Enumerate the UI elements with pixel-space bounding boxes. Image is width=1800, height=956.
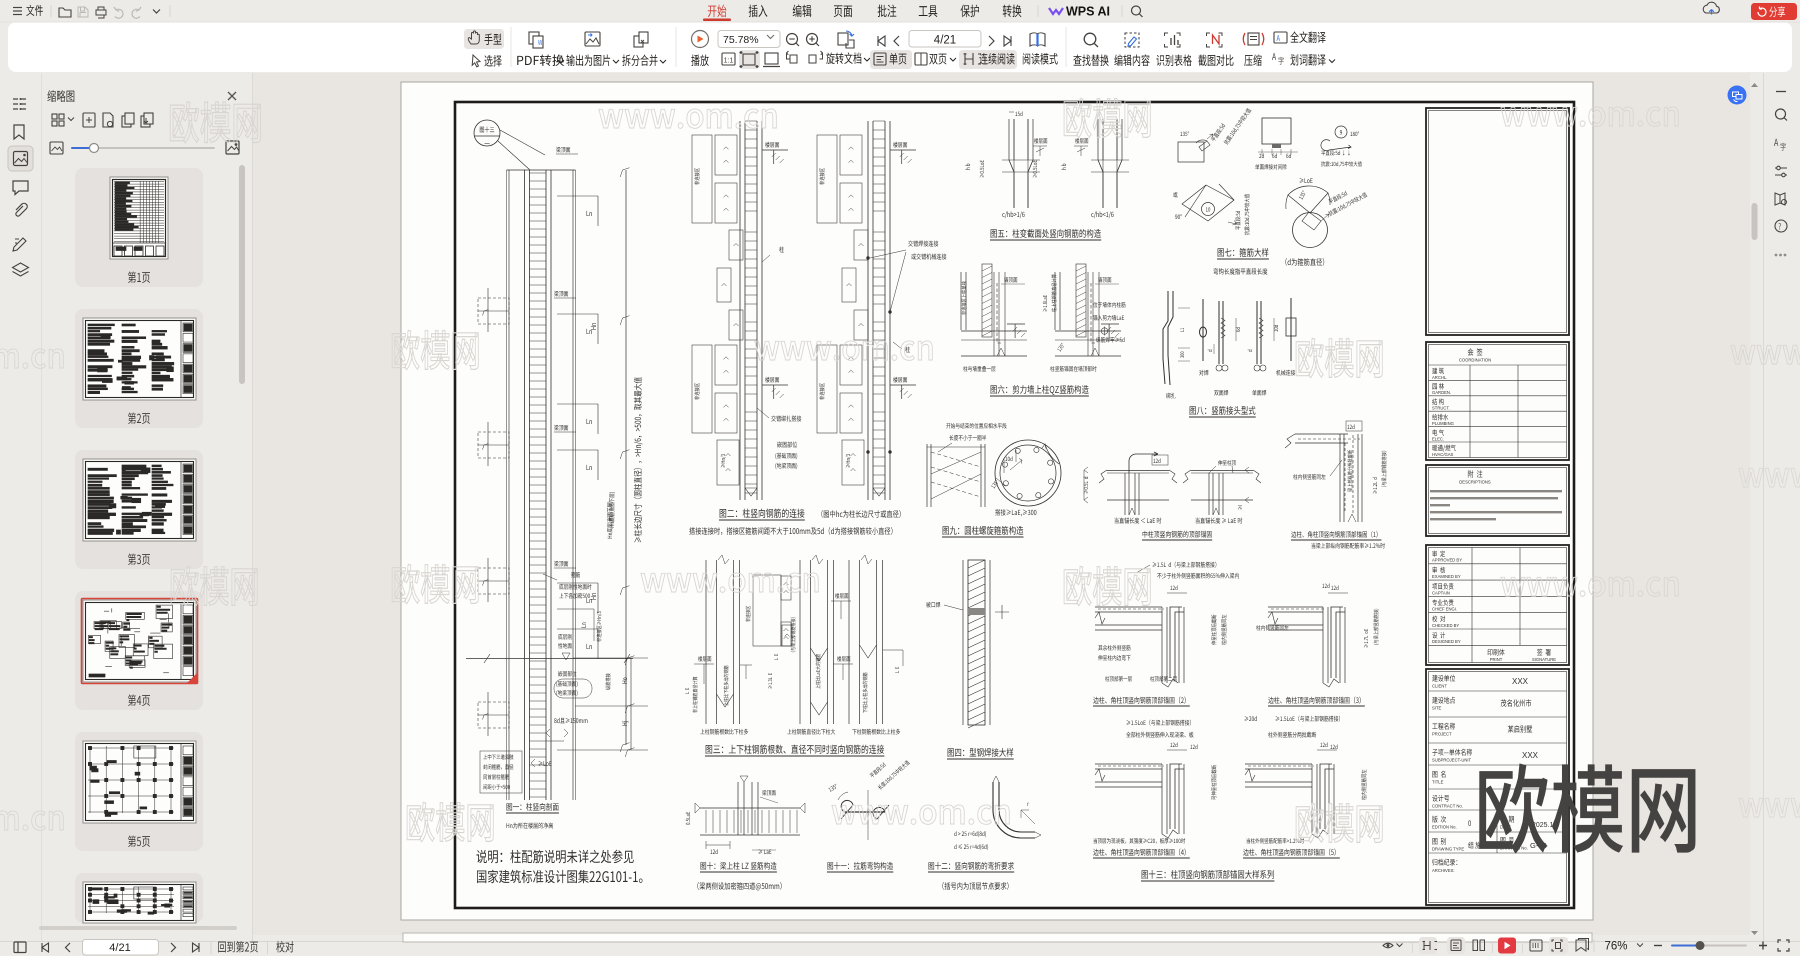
svg-text:4/21: 4/21 — [109, 942, 130, 954]
svg-text:ARCHIVES:: ARCHIVES: — [1432, 868, 1455, 873]
svg-text:STRUCT.: STRUCT. — [1432, 406, 1450, 411]
svg-text:CHIEF ENGI.: CHIEF ENGI. — [1432, 607, 1457, 612]
svg-text:SITE: SITE — [1432, 706, 1442, 711]
svg-text:EDITION No.: EDITION No. — [1432, 825, 1457, 830]
svg-text:HVAC/GAS: HVAC/GAS — [1432, 452, 1454, 457]
svg-text:1:1: 1:1 — [724, 58, 734, 65]
svg-text:WPS AI: WPS AI — [1066, 5, 1110, 19]
svg-text:TITLE: TITLE — [1432, 780, 1444, 785]
svg-text:COORDINATION: COORDINATION — [1459, 358, 1491, 363]
svg-text:4/21: 4/21 — [934, 35, 956, 47]
svg-text:DRAWING TYPE: DRAWING TYPE — [1432, 847, 1464, 852]
svg-text:76%: 76% — [1604, 941, 1627, 953]
svg-text:SUBPROJECT-UNIT: SUBPROJECT-UNIT — [1432, 758, 1472, 763]
svg-text:PLUMBING: PLUMBING — [1432, 421, 1454, 426]
svg-text:DESIGNED BY: DESIGNED BY — [1432, 639, 1461, 644]
svg-text:ELEC.: ELEC. — [1432, 436, 1444, 441]
svg-text:DESCRIPTIONS: DESCRIPTIONS — [1459, 480, 1491, 485]
svg-text:75.78%: 75.78% — [723, 34, 759, 46]
svg-text:PROJECT: PROJECT — [1432, 732, 1452, 737]
svg-text:CHECKED BY: CHECKED BY — [1432, 623, 1459, 628]
svg-text:CAPTAIN: CAPTAIN — [1432, 590, 1450, 595]
svg-text:PRINT: PRINT — [1490, 657, 1503, 662]
svg-text:ARCHL.: ARCHL. — [1432, 375, 1447, 380]
svg-text:XXX: XXX — [1512, 677, 1529, 686]
svg-text:APPROVED BY: APPROVED BY — [1432, 558, 1462, 563]
svg-text:XXX: XXX — [1522, 751, 1539, 760]
svg-text:EXAMINED BY: EXAMINED BY — [1432, 574, 1461, 579]
svg-text:CONTRACT No.: CONTRACT No. — [1432, 804, 1463, 809]
svg-text:CLIENT: CLIENT — [1432, 684, 1447, 689]
svg-text:SIGNATURE: SIGNATURE — [1532, 657, 1556, 662]
svg-text:GARDEN.: GARDEN. — [1432, 390, 1451, 395]
